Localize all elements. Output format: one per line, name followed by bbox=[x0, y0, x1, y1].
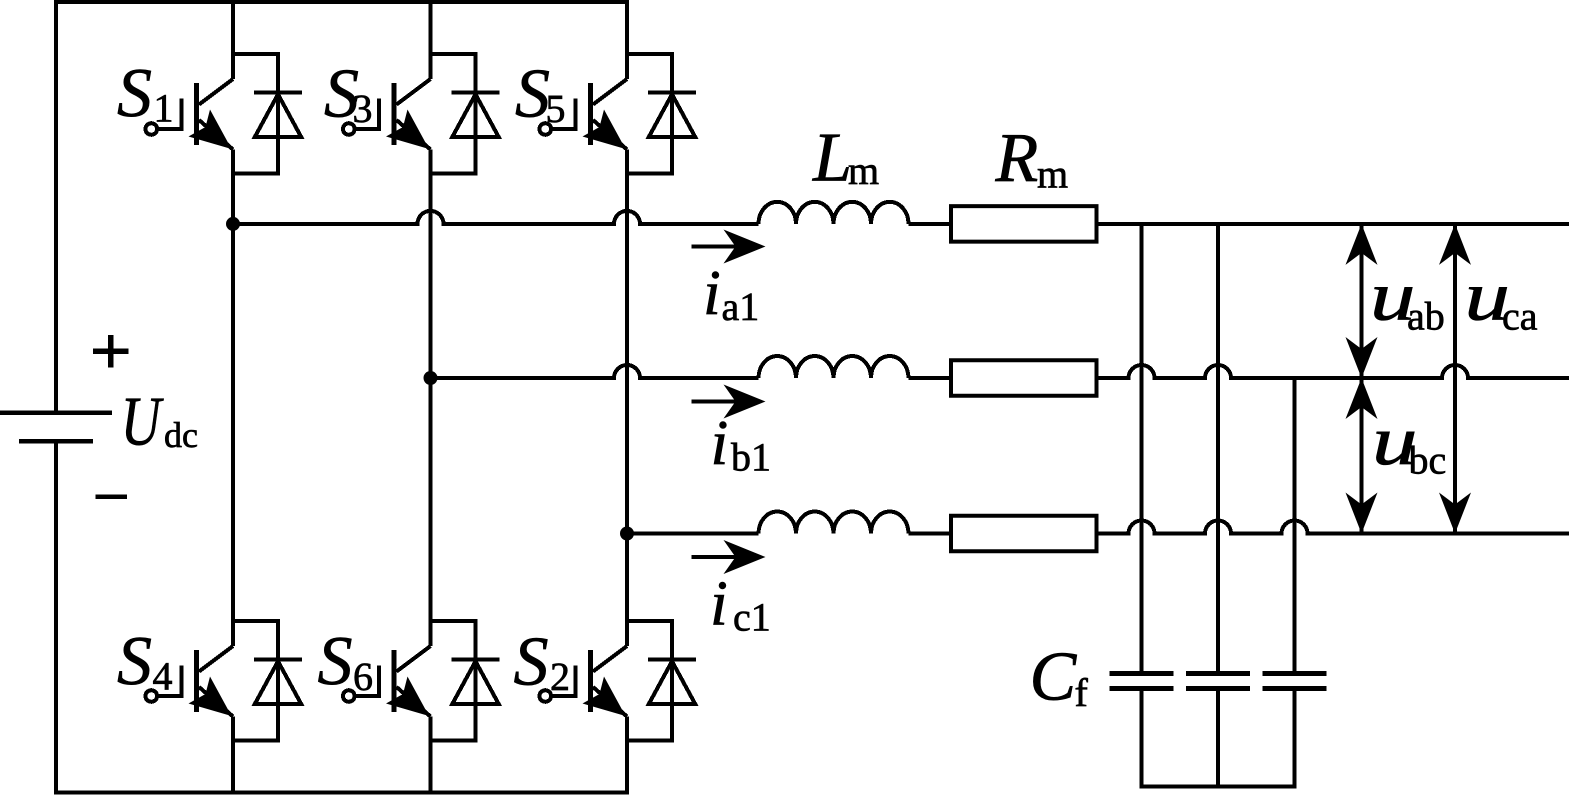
label S1 bbox=[117, 55, 174, 132]
diode D3 bbox=[431, 54, 500, 174]
resistor Rc bbox=[951, 516, 1097, 552]
wire capacitor branch 3 (from phase b) upper bbox=[1293, 378, 1297, 671]
label S2 bbox=[514, 624, 571, 701]
wire leg c upper trunk (rail to S5 collector) bbox=[625, 0, 629, 79]
capacitor Cf3 bbox=[1263, 674, 1327, 689]
svg-text:bc: bc bbox=[1409, 438, 1447, 483]
wire phase a (inductor to resistor) bbox=[909, 222, 950, 226]
transistor S1 bbox=[146, 79, 234, 150]
wire phase b (node b to inductor, hop over leg c) bbox=[431, 365, 759, 378]
capacitor Cf1 bbox=[1110, 674, 1174, 689]
svg-text:ca: ca bbox=[1502, 294, 1538, 339]
current arrow ia1 bbox=[692, 230, 766, 264]
wire leg b upper trunk (rail to S3 collector) bbox=[429, 0, 433, 79]
svg-text:f: f bbox=[1075, 670, 1089, 715]
svg-text:b1: b1 bbox=[731, 435, 771, 480]
label + polarity bbox=[93, 335, 128, 368]
svg-text:4: 4 bbox=[153, 653, 173, 698]
wire leg a emitter to node a bbox=[231, 150, 235, 224]
svg-text:m: m bbox=[848, 148, 879, 193]
diode D5 bbox=[627, 54, 696, 174]
diode D2 bbox=[627, 621, 696, 741]
voltage arrow uca (phase a to phase c, crosses phase b under hop) bbox=[1439, 224, 1471, 534]
current arrow ic1 bbox=[692, 540, 766, 574]
node a junction dot bbox=[226, 217, 240, 231]
wire bottom DC rail bbox=[54, 790, 629, 794]
label uca bbox=[1465, 259, 1538, 339]
svg-text:S: S bbox=[514, 624, 549, 701]
label ubc bbox=[1372, 403, 1446, 483]
label Cf bbox=[1030, 639, 1089, 716]
wire phase a (resistor to right edge) bbox=[1099, 222, 1570, 226]
wire leg c node c to S2 collector bbox=[625, 534, 629, 647]
label Rm bbox=[995, 120, 1069, 197]
label S3 bbox=[324, 55, 373, 132]
wire capacitor branch 3 (from phase b) lower bbox=[1293, 691, 1297, 787]
wire leg a upper trunk (rail to S1 collector) bbox=[231, 0, 235, 79]
label S4 bbox=[117, 623, 173, 700]
label Lm bbox=[812, 120, 879, 197]
diode D4 bbox=[233, 621, 302, 741]
transistor S2 bbox=[540, 646, 628, 717]
wire phase b (inductor to resistor) bbox=[909, 376, 950, 380]
svg-text:R: R bbox=[995, 120, 1039, 197]
wire leg b emitter to node b bbox=[429, 150, 433, 379]
svg-text:1: 1 bbox=[154, 86, 174, 131]
inductor Lc bbox=[759, 512, 909, 534]
svg-text:a1: a1 bbox=[722, 284, 760, 329]
wire left DC column lower bbox=[54, 441, 58, 794]
wire phase c (resistor to right edge, hops over cap branches 1,2,3) bbox=[1099, 521, 1570, 534]
voltage arrow uab (phase a to phase b) bbox=[1346, 224, 1378, 378]
wire leg c emitter to node c bbox=[625, 150, 629, 534]
wire capacitor branch 2 (from phase a) lower bbox=[1216, 691, 1220, 787]
wire phase b (resistor to right edge, hops over cap branches 1,2 and uca arrow) bbox=[1099, 365, 1570, 378]
wire leg b node b to S6 collector bbox=[429, 378, 433, 646]
label uab bbox=[1370, 259, 1445, 339]
wire capacitor branch 2 (from phase a) upper bbox=[1216, 224, 1220, 671]
wire top DC rail bbox=[54, 0, 629, 4]
diode D1 bbox=[233, 54, 302, 174]
svg-text:S: S bbox=[318, 623, 353, 700]
wire capacitor branch 1 (from phase a) upper bbox=[1140, 224, 1144, 671]
wire leg a node a to S4 collector bbox=[231, 224, 235, 646]
resistor Rb bbox=[951, 360, 1097, 396]
wire phase c (node c to inductor) bbox=[627, 532, 759, 536]
capacitor Cf2 bbox=[1186, 674, 1250, 689]
node b junction dot bbox=[424, 371, 438, 385]
svg-text:c1: c1 bbox=[733, 595, 771, 640]
svg-text:i: i bbox=[711, 407, 729, 478]
wire left DC column upper bbox=[54, 0, 58, 413]
svg-text:5: 5 bbox=[546, 86, 566, 131]
svg-text:S: S bbox=[117, 55, 152, 132]
label ib1 bbox=[711, 407, 772, 480]
svg-text:U: U bbox=[121, 384, 164, 461]
svg-text:dc: dc bbox=[164, 415, 198, 455]
wire leg b lower emitter to bottom rail bbox=[429, 717, 433, 793]
label ic1 bbox=[710, 568, 771, 640]
transistor S5 bbox=[540, 79, 628, 150]
label Udc bbox=[121, 384, 198, 461]
svg-text:C: C bbox=[1030, 639, 1078, 716]
svg-text:S: S bbox=[117, 623, 152, 700]
diode D6 bbox=[431, 621, 500, 741]
svg-text:6: 6 bbox=[353, 654, 373, 699]
inductor La bbox=[759, 202, 909, 224]
wire capacitor branch 1 (from phase a) lower bbox=[1140, 691, 1144, 787]
transistor S6 bbox=[343, 646, 431, 717]
svg-text:ab: ab bbox=[1407, 294, 1445, 339]
svg-text:m: m bbox=[1037, 152, 1068, 197]
label - polarity bbox=[96, 494, 127, 499]
svg-text:3: 3 bbox=[353, 86, 373, 131]
label ia1 bbox=[703, 257, 759, 329]
battery Udc negative plate bbox=[19, 439, 93, 444]
svg-text:i: i bbox=[710, 568, 728, 639]
voltage arrow ubc (phase b to phase c) bbox=[1346, 378, 1378, 534]
node c junction dot bbox=[620, 527, 634, 541]
svg-text:L: L bbox=[812, 120, 852, 197]
battery Udc positive plate bbox=[0, 410, 112, 415]
wire leg c lower emitter to bottom rail bbox=[625, 717, 629, 793]
wire leg a lower emitter to bottom rail bbox=[231, 717, 235, 793]
svg-text:i: i bbox=[703, 257, 721, 328]
transistor S4 bbox=[146, 646, 234, 717]
svg-text:2: 2 bbox=[550, 654, 570, 699]
current arrow ib1 bbox=[692, 385, 766, 419]
wire phase c (inductor to resistor) bbox=[909, 532, 950, 536]
resistor Ra bbox=[951, 206, 1097, 242]
wire capacitor bottom bus bbox=[1140, 785, 1297, 789]
wire phase a (node a to inductor, hops over legs b,c) bbox=[233, 211, 759, 224]
inductor Lb bbox=[759, 356, 909, 378]
label S5 bbox=[515, 55, 566, 132]
transistor S3 bbox=[343, 79, 431, 150]
label S6 bbox=[318, 623, 374, 700]
